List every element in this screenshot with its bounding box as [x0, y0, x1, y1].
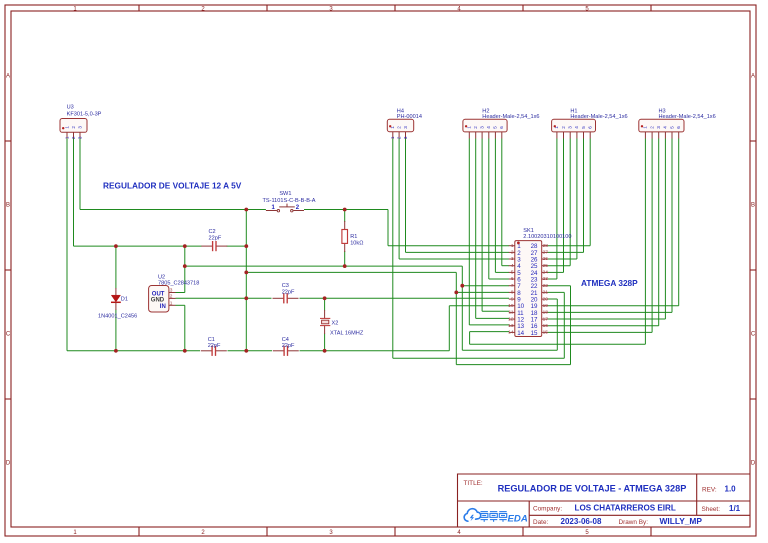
wire switch rail y=209.5: [80, 209, 266, 211]
svg-text:B: B: [6, 203, 10, 209]
junction node (246.3,298.3): [244, 296, 248, 300]
svg-text:13: 13: [508, 323, 514, 329]
wire SK1 pin10 to GND rail: [448, 306, 450, 351]
title block: [458, 474, 751, 527]
wire under-chip rail y=350.2 pin20: [462, 349, 557, 351]
wire under-chip rail y=358.3 pin21 to H4 pin1: [393, 357, 565, 359]
svg-text:D: D: [6, 461, 11, 467]
connector H4 PH-00014: [387, 108, 422, 139]
wire SK1 pin24 to H1 pin2: [548, 271, 564, 273]
svg-text:B: B: [751, 203, 755, 209]
svg-text:2: 2: [511, 250, 514, 256]
svg-text:3: 3: [403, 126, 408, 129]
svg-text:2: 2: [396, 136, 401, 139]
wire under-chip rail y=364.6 pin22: [456, 364, 570, 366]
svg-text:22pF: 22pF: [209, 236, 222, 242]
svg-text:C4: C4: [282, 337, 289, 343]
wire SK1 pin15 to H3 pin2: [548, 331, 653, 333]
svg-text:3: 3: [656, 126, 661, 129]
svg-text:SW1: SW1: [279, 191, 291, 197]
svg-text:4: 4: [486, 126, 491, 129]
wire SW to SK1 pin1 drop: [387, 210, 389, 246]
svg-text:1: 1: [170, 300, 173, 306]
wire H2 pin3 to SK1 pin11: [481, 139, 483, 312]
IC socket SK1 ATMEGA 328P: [508, 228, 571, 337]
svg-text:3: 3: [170, 288, 173, 294]
svg-text:TITLE:: TITLE:: [464, 480, 483, 487]
svg-text:23: 23: [543, 276, 549, 282]
logo EasyEDA: [464, 509, 528, 525]
svg-text:5: 5: [581, 126, 586, 129]
svg-text:6: 6: [676, 126, 681, 129]
svg-text:24: 24: [543, 270, 549, 276]
svg-text:6: 6: [588, 126, 593, 129]
svg-text:1: 1: [390, 136, 395, 139]
svg-text:2: 2: [170, 294, 173, 300]
svg-text:19: 19: [543, 303, 549, 309]
wire SK1 pin17 to H3 pin4: [548, 318, 666, 320]
svg-text:4: 4: [511, 263, 514, 269]
wire SK1 pin8 feed: [455, 272, 457, 364]
svg-text:3: 3: [403, 136, 408, 139]
wire H4 pin2 to SK1 pin3: [398, 139, 400, 260]
svg-text:17: 17: [543, 316, 549, 322]
wire R1 top lead: [344, 210, 346, 222]
diode D1 1N4001_C2456: [98, 288, 137, 320]
svg-text:EDA: EDA: [508, 514, 528, 525]
resistor R1 10k: [342, 221, 364, 252]
svg-text:C2: C2: [209, 229, 216, 235]
svg-text:1: 1: [467, 126, 472, 129]
wire H4 pin3 to SK1 pin2: [405, 139, 407, 253]
wire SK1 pin14 drop: [470, 331, 509, 333]
svg-text:3: 3: [479, 126, 484, 129]
junction node (462.3,285.7): [460, 284, 464, 288]
crystal X2 XTAL 16MHZ: [320, 310, 364, 336]
svg-text:4: 4: [574, 126, 579, 129]
svg-text:D: D: [751, 461, 756, 467]
svg-text:10kΩ: 10kΩ: [350, 240, 363, 246]
connector H1 Header-Male-2,54_1x6: [552, 108, 628, 138]
junction node (246.3,246.1): [244, 244, 248, 248]
junction node (324.6,298.3): [323, 296, 327, 300]
svg-text:2: 2: [561, 126, 566, 129]
svg-text:10: 10: [508, 303, 514, 309]
svg-text:8: 8: [511, 290, 514, 296]
svg-text:1: 1: [511, 243, 514, 249]
svg-text:6: 6: [511, 276, 514, 282]
svg-text:GND: GND: [151, 298, 165, 304]
wire U2 IN link and drop: [176, 304, 185, 306]
svg-text:4: 4: [663, 126, 668, 129]
svg-text:KF301-5,0-3P: KF301-5,0-3P: [67, 111, 102, 117]
junction node (184.8,246.1): [183, 244, 187, 248]
svg-text:22pF: 22pF: [282, 289, 295, 295]
svg-text:2023-06-08: 2023-06-08: [561, 517, 602, 526]
svg-text:2: 2: [71, 136, 76, 139]
svg-text:1.0: 1.0: [725, 485, 737, 494]
svg-text:18: 18: [543, 310, 549, 316]
svg-text:6: 6: [499, 126, 504, 129]
connector H3 Header-Male-2,54_1x6: [639, 108, 716, 138]
svg-text:3: 3: [511, 256, 514, 262]
wire SK1 pin28 to H1 pin6: [548, 245, 591, 247]
wire H2 pin4 to SK1 pin6: [488, 139, 490, 280]
svg-text:C1: C1: [208, 337, 215, 343]
svg-text:14: 14: [517, 330, 524, 337]
svg-text:REGULADOR DE VOLTAJE 12 A 5V: REGULADOR DE VOLTAJE 12 A 5V: [103, 180, 242, 190]
svg-text:25: 25: [543, 263, 549, 269]
wire GND/C3 rail y=298.3: [176, 297, 272, 299]
wire SK1 pin19 to H3 pin6: [548, 305, 679, 307]
junction node (456.3,292.4): [454, 291, 458, 295]
junction node (344.7,266.1): [343, 264, 347, 268]
svg-text:15: 15: [543, 330, 549, 336]
svg-text:Company:: Company:: [533, 505, 562, 512]
wire R1 bottom lead: [344, 251, 346, 266]
svg-text:2: 2: [71, 126, 76, 129]
wire SK1 pin18 to H3 pin5: [548, 311, 673, 313]
wire under-chip rail y=344.3 to H3 pin1: [470, 343, 646, 345]
wire SK1 pin26 to H1 pin4: [548, 258, 577, 260]
svg-text:3: 3: [568, 126, 573, 129]
svg-text:22pF: 22pF: [282, 343, 295, 349]
svg-text:Drawn By:: Drawn By:: [619, 519, 649, 526]
wire SK1 pin25 to H1 pin3: [548, 265, 571, 267]
junction node (246.3,209.5): [244, 208, 248, 212]
junction node (344.7,209.5): [343, 208, 347, 212]
wire GND bottom rail y=350.8: [67, 350, 200, 352]
svg-text:XTAL 16MHZ: XTAL 16MHZ: [330, 330, 364, 336]
svg-text:REGULADOR DE VOLTAJE - ATMEGA: REGULADOR DE VOLTAJE - ATMEGA 328P: [498, 484, 687, 494]
svg-text:9: 9: [511, 296, 514, 302]
wire +5V rail y=266.1: [185, 265, 463, 267]
svg-text:15: 15: [531, 330, 538, 337]
svg-text:A: A: [6, 74, 10, 80]
connector H2 Header-Male-2,54_1x6: [463, 108, 540, 138]
svg-text:2: 2: [396, 126, 401, 129]
svg-text:A: A: [751, 74, 755, 80]
wire H2 pin1 to SK1 pin13: [468, 139, 470, 325]
svg-text:27: 27: [543, 250, 549, 256]
wire SK1 pin16 to H3 pin3: [548, 325, 659, 327]
svg-text:X2: X2: [332, 321, 339, 327]
wire H4 pin1 long vertical: [392, 139, 394, 359]
svg-text:5: 5: [511, 270, 514, 276]
svg-text:22pF: 22pF: [208, 343, 221, 349]
svg-text:IN: IN: [160, 304, 166, 310]
wire D1 top segment: [115, 246, 117, 288]
svg-text:2: 2: [473, 126, 478, 129]
wire D1 bottom segment: [115, 310, 117, 351]
wire SK1 pin7 feed: [461, 266, 463, 350]
wire SK1 pin23 to H1 pin1: [548, 278, 557, 280]
junction node (184.8,266.1): [183, 264, 187, 268]
svg-text:REV:: REV:: [702, 486, 717, 493]
junction node (115.9,246.1): [114, 244, 118, 248]
svg-text:5: 5: [493, 126, 498, 129]
svg-text:12: 12: [508, 316, 514, 322]
svg-text:C: C: [6, 332, 11, 338]
svg-text:21: 21: [543, 290, 549, 296]
svg-text:7: 7: [511, 283, 514, 289]
svg-text:Sheet:: Sheet:: [702, 506, 721, 513]
svg-text:1N4001_C2456: 1N4001_C2456: [98, 314, 137, 320]
svg-text:20: 20: [543, 296, 549, 302]
wire C2 rail y=246.1: [74, 245, 202, 247]
wire GND vertical bus x=246.3: [245, 210, 247, 351]
svg-text:2: 2: [649, 126, 654, 129]
svg-text:Date:: Date:: [533, 519, 548, 526]
svg-text:C: C: [751, 332, 756, 338]
svg-text:1: 1: [64, 136, 69, 139]
svg-text:14: 14: [508, 330, 514, 336]
junction node (246.3,272.4): [244, 271, 248, 275]
svg-text:28: 28: [543, 243, 549, 249]
svg-text:1/1: 1/1: [729, 504, 741, 513]
svg-text:D1: D1: [121, 297, 128, 303]
capacitor C1 22pF: [201, 337, 227, 356]
junction node (184.8,350.8): [183, 349, 187, 353]
switch SW1 TS-1101S-C-B-B-B-A: [262, 191, 315, 212]
wire H2 pin6 to SK1 pin4: [501, 139, 503, 266]
junction node (246.3,350.8): [244, 349, 248, 353]
capacitor C4 22pF: [273, 337, 299, 356]
svg-text:LOS CHATARREROS EIRL: LOS CHATARREROS EIRL: [575, 504, 676, 513]
capacitor C2 22pF: [201, 229, 227, 251]
junction node (115.9,350.8): [114, 349, 118, 353]
wire SK1 pin27 to H1 pin5: [548, 251, 584, 253]
svg-text:SK1: SK1: [523, 228, 534, 234]
wire X2 drop: [324, 298, 326, 310]
svg-text:U3: U3: [67, 104, 74, 110]
wire H2 pin5 to SK1 pin5: [494, 139, 496, 273]
svg-text:1: 1: [64, 126, 69, 129]
svg-text:WILLY_MP: WILLY_MP: [660, 516, 703, 526]
wire H2 pin2 to SK1 pin12: [475, 139, 477, 319]
wire U3 pin3 down to switch rail: [79, 139, 81, 210]
wire U3 pin2 down to C2 rail: [73, 139, 75, 247]
svg-text:ATMEGA 328P: ATMEGA 328P: [581, 278, 638, 288]
svg-text:22: 22: [543, 283, 549, 289]
svg-text:OUT: OUT: [152, 292, 165, 298]
svg-text:R1: R1: [350, 234, 357, 240]
svg-text:3: 3: [77, 136, 82, 139]
svg-text:3: 3: [77, 126, 82, 129]
connector U3 KF301-5,0-3P: [60, 104, 102, 139]
wire U2 OUT feed vertical: [184, 246, 186, 292]
regulator U2 7805_C2843718: [149, 274, 200, 312]
svg-text:5: 5: [669, 126, 674, 129]
wire U3 pin1 to GND rail (vertical): [66, 139, 68, 351]
svg-text:2.10020310100100: 2.10020310100100: [523, 234, 571, 240]
svg-text:16: 16: [543, 323, 549, 329]
svg-text:1: 1: [643, 126, 648, 129]
svg-text:C3: C3: [282, 283, 289, 289]
svg-text:11: 11: [509, 310, 514, 316]
wire U2 OUT stub link: [176, 292, 185, 294]
svg-text:26: 26: [543, 256, 549, 262]
svg-text:TS-1101S-C-B-B-B-A: TS-1101S-C-B-B-B-A: [262, 198, 315, 204]
capacitor C3 22pF: [273, 283, 299, 303]
svg-text:U2: U2: [158, 274, 165, 280]
wire rail y=272.4: [246, 271, 456, 273]
junction node (324.6,350.8): [323, 349, 327, 353]
